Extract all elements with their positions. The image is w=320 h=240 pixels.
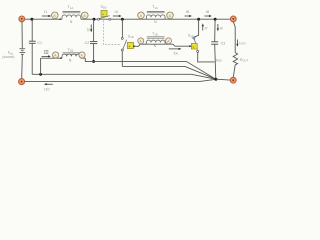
wire C2 to node <box>93 44 95 62</box>
svg-text:IOUT: IOUT <box>239 41 246 46</box>
node junction JB <box>214 78 217 81</box>
current arrow I9 <box>217 24 223 31</box>
ammeter M6 <box>166 38 172 44</box>
wire T1B row <box>41 57 86 59</box>
node junction J2 <box>93 18 96 21</box>
capacitor C3 <box>211 42 218 44</box>
wire rail L2 <box>122 66 216 79</box>
ammeter M2 <box>82 12 89 19</box>
wire C2 branch <box>93 19 95 41</box>
ammeter M7 <box>53 52 62 59</box>
svg-text:IDK: IDK <box>174 51 179 56</box>
inductor T1C <box>146 11 165 19</box>
inductor T1D <box>146 37 165 44</box>
svg-text:N: N <box>70 20 73 24</box>
svg-text:ROUT: ROUT <box>240 58 248 63</box>
current arrow I2 <box>86 25 93 33</box>
svg-text:Sno: Sno <box>216 59 222 63</box>
wire C1 branch <box>31 19 33 41</box>
node junction J3 <box>121 18 124 21</box>
wire top rail <box>25 18 230 20</box>
arrowhead into S1F <box>189 45 192 47</box>
node junction J1 <box>30 18 33 21</box>
current arrow I1 <box>42 9 51 17</box>
inductor T1A <box>62 11 81 19</box>
svg-text:C3: C3 <box>221 42 226 46</box>
current arrow I4 <box>113 9 122 17</box>
ammeter M5 <box>138 38 144 44</box>
wire Edc to bottom port <box>21 55 24 79</box>
wire J3 down to S1D <box>121 19 123 37</box>
ammeter M1 <box>52 12 62 20</box>
current arrow Iok <box>169 48 182 56</box>
switch S1F <box>191 37 198 53</box>
port Vout- bottom-right <box>230 77 236 83</box>
wire S1F to C3 vertical <box>198 53 215 62</box>
current arrow I6 <box>185 9 192 17</box>
wire gate dashed S1B to S1D <box>104 21 122 45</box>
ammeter M3 <box>138 12 145 19</box>
wire Edc branch <box>21 22 23 49</box>
wire rail L3 <box>32 74 216 79</box>
resistor Rout <box>233 53 237 65</box>
node junction J4 <box>197 18 200 21</box>
wire Vout right branch upper <box>233 22 235 53</box>
current arrow I8 <box>204 9 211 17</box>
svg-text:I10: I10 <box>44 88 49 92</box>
battery Edc <box>20 49 26 55</box>
wire J4 down to S1F <box>194 19 198 37</box>
wire T1B left riser <box>40 58 42 74</box>
ammeter M4 <box>167 12 174 19</box>
capacitor C2 <box>90 42 97 44</box>
current arrow into M7 <box>42 55 51 57</box>
switch S1D <box>121 37 133 51</box>
port Vout+ top-right <box>230 16 236 22</box>
wire S1D box to T1D row <box>134 44 190 46</box>
ammeter M8 <box>79 52 85 58</box>
node junction J8 <box>39 73 42 76</box>
current arrow I7 <box>202 23 208 30</box>
node junction J5 <box>214 18 217 21</box>
svg-text:I7: I7 <box>205 26 208 30</box>
current arrow I10 <box>44 83 53 92</box>
svg-text:N: N <box>69 59 72 63</box>
svg-text:(source): (source) <box>2 55 14 59</box>
svg-text:C1: C1 <box>37 41 42 45</box>
gate block D1 <box>45 50 48 53</box>
wire C3 to bottom junction <box>215 44 216 79</box>
node junction J7 <box>133 45 135 47</box>
switch S1B <box>98 10 111 20</box>
port Edc- bottom-left <box>19 79 25 85</box>
wire S1D to bottom rail <box>121 51 123 66</box>
wire rail L1 <box>85 58 216 79</box>
inductor T1B <box>62 53 81 58</box>
node junction J6 <box>92 60 95 63</box>
wire rail L4 <box>25 79 216 81</box>
current arrow Iout <box>236 40 246 47</box>
wire JB to port <box>216 78 230 81</box>
wire C1 to bottom rail <box>31 44 33 75</box>
capacitor C1 <box>29 41 36 43</box>
svg-text:N: N <box>154 44 157 48</box>
svg-text:N: N <box>154 20 157 24</box>
svg-text:C2: C2 <box>85 41 90 45</box>
port Edc+ top-left <box>19 16 25 22</box>
wire C3 branch <box>214 19 216 41</box>
svg-text:I9: I9 <box>220 26 223 30</box>
wire Rout to bottom port <box>233 65 235 77</box>
